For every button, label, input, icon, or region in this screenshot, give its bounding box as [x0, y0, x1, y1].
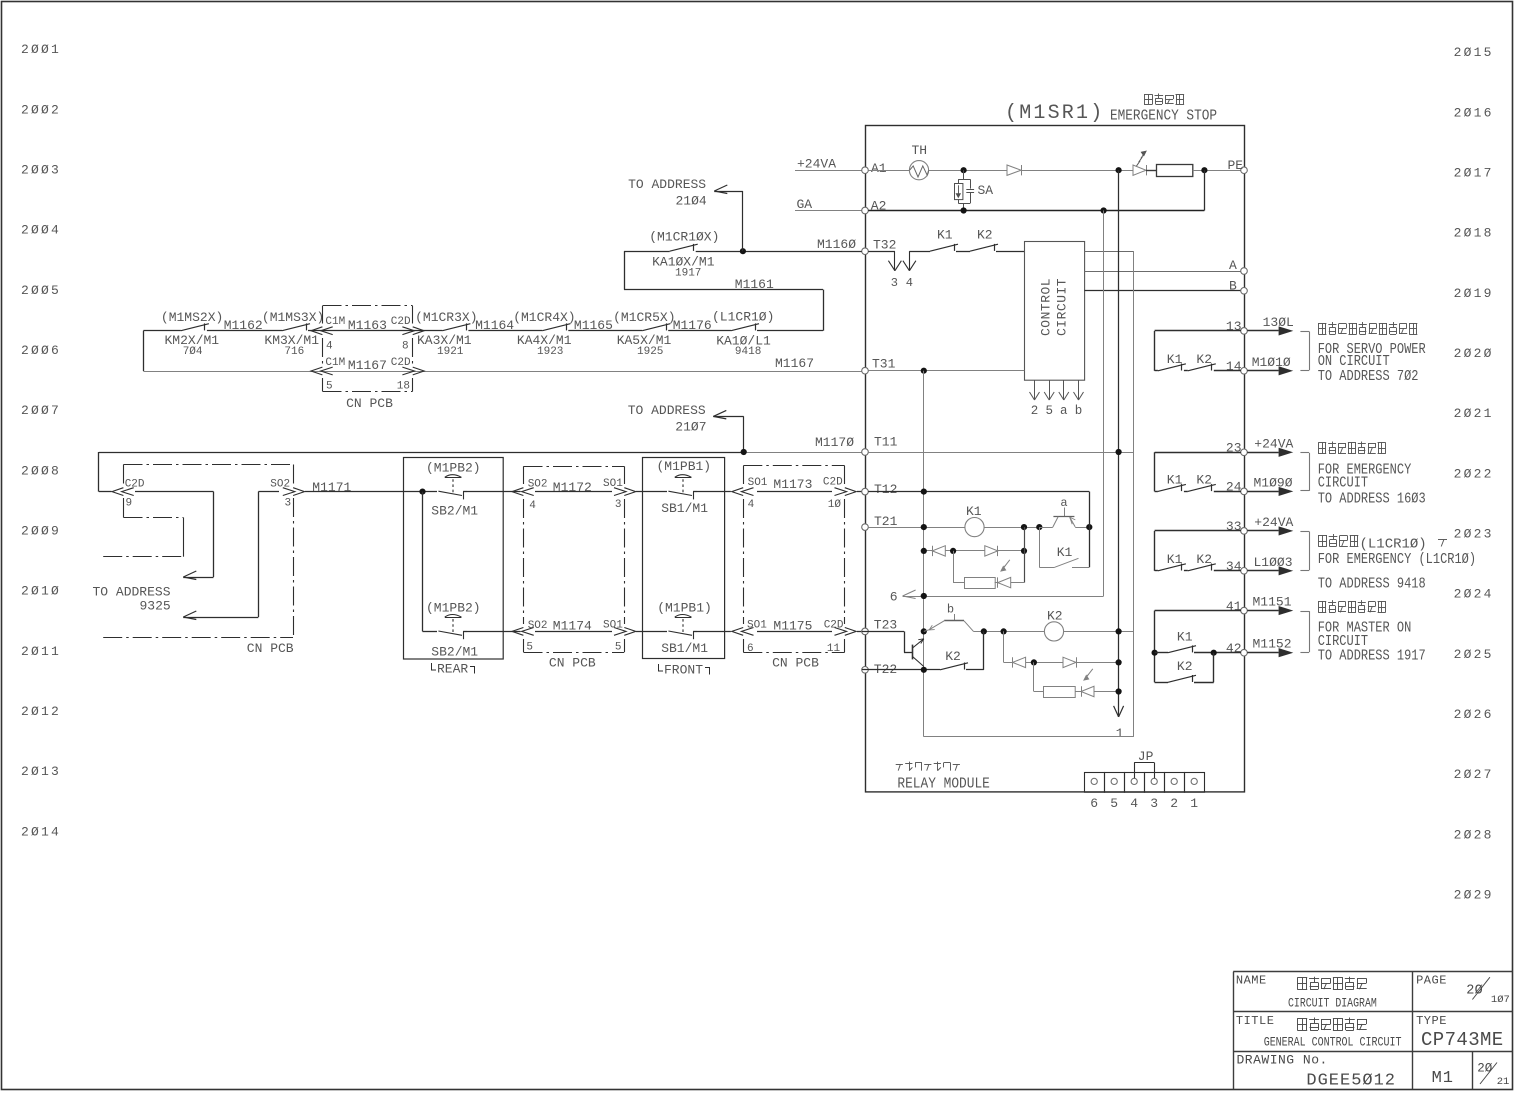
svg-text:SO1: SO1 — [748, 477, 768, 489]
svg-text:FOR EMERGENCY (L1CR1Ø): FOR EMERGENCY (L1CR1Ø) — [1318, 552, 1476, 569]
svg-text:SO2: SO2 — [270, 479, 290, 491]
svg-text:(M1PB1): (M1PB1) — [657, 459, 712, 474]
svg-text:K2: K2 — [1196, 472, 1212, 487]
svg-text:14: 14 — [1226, 359, 1242, 374]
svg-text:T32: T32 — [873, 238, 896, 253]
svg-text:(M1PB2): (M1PB2) — [426, 460, 481, 475]
svg-text:23: 23 — [1226, 441, 1242, 456]
svg-text:7Ø4: 7Ø4 — [183, 346, 203, 358]
svg-text:(M1PB1): (M1PB1) — [657, 601, 712, 616]
svg-text:2ØØ3: 2ØØ3 — [21, 162, 61, 177]
svg-text:5: 5 — [1045, 404, 1053, 418]
svg-text:M1164: M1164 — [475, 318, 514, 333]
svg-text:M1Ø1Ø: M1Ø1Ø — [1252, 355, 1291, 370]
svg-text:CN PCB: CN PCB — [247, 641, 294, 656]
svg-text:M1175: M1175 — [773, 619, 812, 634]
svg-text:M1167: M1167 — [348, 358, 387, 373]
svg-text:2Ø1Ø: 2Ø1Ø — [21, 584, 61, 599]
svg-text:SB1/M1: SB1/M1 — [661, 641, 708, 656]
svg-text:5: 5 — [615, 642, 622, 654]
svg-text:TH: TH — [912, 143, 928, 158]
svg-text:5: 5 — [526, 642, 533, 654]
svg-text:b: b — [1075, 404, 1083, 418]
svg-text:M117Ø: M117Ø — [815, 435, 854, 450]
svg-text:FRONT: FRONT — [664, 663, 703, 678]
svg-text:M1172: M1172 — [553, 480, 592, 495]
svg-text:2ØØ1: 2ØØ1 — [21, 42, 61, 57]
svg-text:K2: K2 — [945, 649, 961, 664]
svg-text:18: 18 — [397, 381, 410, 393]
svg-text:PAGE: PAGE — [1416, 973, 1447, 987]
svg-text:T23: T23 — [874, 618, 897, 633]
svg-text:5: 5 — [1110, 796, 1118, 811]
svg-text:K1: K1 — [1167, 352, 1183, 367]
svg-text:11: 11 — [827, 643, 841, 655]
svg-text:TO ADDRESS: TO ADDRESS — [628, 403, 706, 418]
svg-text:9: 9 — [126, 498, 133, 510]
svg-text:TO ADDRESS 16Ø3: TO ADDRESS 16Ø3 — [1318, 491, 1426, 508]
svg-text:(L1CR1Ø): (L1CR1Ø) — [1360, 537, 1427, 553]
svg-text:K1: K1 — [1167, 552, 1183, 567]
svg-text:1Ø: 1Ø — [828, 499, 842, 511]
svg-text:9418: 9418 — [735, 346, 761, 358]
svg-text:2ØØ8: 2ØØ8 — [21, 463, 61, 478]
svg-text:JP: JP — [1138, 749, 1154, 764]
svg-text:M1: M1 — [1432, 1069, 1454, 1088]
svg-text:TITLE: TITLE — [1236, 1014, 1275, 1028]
svg-text:2Ø2Ø: 2Ø2Ø — [1454, 346, 1494, 361]
svg-text:716: 716 — [284, 346, 304, 358]
svg-text:b: b — [947, 603, 954, 617]
svg-text:a: a — [1060, 404, 1068, 418]
svg-text:T21: T21 — [874, 514, 898, 529]
svg-text:C2D: C2D — [823, 477, 843, 489]
svg-text:SO1: SO1 — [603, 620, 623, 632]
svg-text:1Ø7: 1Ø7 — [1491, 994, 1510, 1006]
svg-text:SA: SA — [978, 183, 994, 198]
svg-text:9325: 9325 — [140, 599, 171, 614]
svg-text:3: 3 — [891, 276, 898, 290]
svg-text:2Ø23: 2Ø23 — [1454, 527, 1494, 542]
svg-text:(M1CR3X): (M1CR3X) — [415, 310, 477, 325]
svg-text:M1171: M1171 — [312, 480, 351, 495]
svg-text:4: 4 — [748, 499, 755, 511]
svg-text:K1: K1 — [1177, 630, 1193, 645]
svg-text:2Ø26: 2Ø26 — [1454, 707, 1494, 722]
svg-text:+24VA: +24VA — [1254, 436, 1293, 451]
svg-text:21Ø4: 21Ø4 — [676, 193, 707, 208]
svg-text:A: A — [1229, 258, 1237, 273]
svg-text:TO ADDRESS 9418: TO ADDRESS 9418 — [1318, 577, 1426, 594]
svg-text:1917: 1917 — [675, 268, 701, 280]
svg-text:M1Ø9Ø: M1Ø9Ø — [1254, 475, 1293, 490]
svg-text:8: 8 — [402, 341, 409, 353]
svg-text:4: 4 — [326, 341, 333, 353]
svg-text:M1151: M1151 — [1253, 595, 1292, 610]
svg-text:13ØL: 13ØL — [1263, 315, 1294, 330]
svg-text:21Ø7: 21Ø7 — [675, 420, 706, 435]
svg-text:34: 34 — [1226, 559, 1242, 574]
svg-text:4: 4 — [906, 276, 913, 290]
svg-text:1921: 1921 — [437, 346, 464, 358]
svg-text:TO ADDRESS 1917: TO ADDRESS 1917 — [1318, 648, 1426, 665]
svg-text:2ØØ6: 2ØØ6 — [21, 343, 61, 358]
svg-text:2Ø28: 2Ø28 — [1454, 827, 1494, 842]
svg-text:C2D: C2D — [391, 316, 411, 328]
svg-text:ON CIRCUIT: ON CIRCUIT — [1318, 354, 1390, 371]
svg-text:M1163: M1163 — [348, 318, 387, 333]
svg-text:M1176: M1176 — [673, 318, 712, 333]
svg-text:3: 3 — [285, 498, 292, 510]
svg-text:GENERAL CONTROL CIRCUIT: GENERAL CONTROL CIRCUIT — [1264, 1037, 1402, 1050]
svg-text:2Ø24: 2Ø24 — [1454, 587, 1494, 602]
svg-text:CIRCUIT DIAGRAM: CIRCUIT DIAGRAM — [1288, 998, 1377, 1011]
svg-text:CN PCB: CN PCB — [346, 396, 393, 411]
svg-text:2ØØ4: 2ØØ4 — [21, 223, 61, 238]
svg-text:1923: 1923 — [537, 346, 563, 358]
svg-text:M1161: M1161 — [735, 277, 774, 292]
svg-text:2: 2 — [1170, 796, 1178, 811]
svg-text:2ØØ5: 2ØØ5 — [21, 283, 61, 298]
svg-text:(M1MS3X): (M1MS3X) — [262, 310, 324, 325]
svg-text:SB2/M1: SB2/M1 — [431, 645, 478, 660]
svg-text:TO ADDRESS: TO ADDRESS — [628, 177, 706, 192]
svg-text:K1: K1 — [1167, 472, 1183, 487]
svg-text:2Ø11: 2Ø11 — [21, 644, 61, 659]
svg-text:2Ø14: 2Ø14 — [21, 824, 61, 839]
svg-text:2Ø16: 2Ø16 — [1454, 105, 1494, 120]
svg-text:(M1PB2): (M1PB2) — [426, 601, 481, 616]
svg-text:SO2: SO2 — [528, 620, 548, 632]
svg-text:SB2/M1: SB2/M1 — [431, 504, 478, 519]
svg-text:RELAY MODULE: RELAY MODULE — [897, 776, 989, 793]
svg-text:+24VA: +24VA — [797, 157, 836, 172]
svg-text:2ØØ2: 2ØØ2 — [21, 102, 61, 117]
svg-text:K1: K1 — [1057, 545, 1073, 560]
svg-text:2Ø21: 2Ø21 — [1454, 406, 1494, 421]
svg-text:K2: K2 — [977, 228, 993, 243]
svg-text:TYPE: TYPE — [1416, 1014, 1447, 1028]
svg-text:K1: K1 — [937, 228, 953, 243]
svg-text:SB1/M1: SB1/M1 — [661, 501, 708, 516]
svg-text:1: 1 — [1116, 726, 1124, 741]
svg-text:M116Ø: M116Ø — [817, 237, 856, 252]
svg-text:DRAWING No.: DRAWING No. — [1237, 1053, 1328, 1068]
svg-text:2: 2 — [1031, 404, 1039, 418]
svg-text:2Ø: 2Ø — [1477, 1061, 1493, 1075]
svg-text:C2D: C2D — [391, 357, 411, 369]
svg-text:13: 13 — [1226, 319, 1242, 334]
svg-text:GA: GA — [797, 197, 813, 212]
svg-text:CIRCUIT: CIRCUIT — [1318, 475, 1368, 492]
svg-text:CIRCUIT: CIRCUIT — [1055, 278, 1070, 336]
svg-text:CN PCB: CN PCB — [549, 656, 596, 671]
svg-text:CN PCB: CN PCB — [772, 656, 819, 671]
svg-text:42: 42 — [1226, 641, 1242, 656]
svg-text:TO ADDRESS 7Ø2: TO ADDRESS 7Ø2 — [1318, 369, 1419, 386]
svg-text:NAME: NAME — [1236, 973, 1267, 987]
svg-text:SO2: SO2 — [528, 479, 548, 491]
svg-text:A1: A1 — [871, 161, 887, 176]
svg-text:6: 6 — [1090, 796, 1098, 811]
svg-text:2Ø27: 2Ø27 — [1454, 767, 1494, 782]
svg-text:C1M: C1M — [325, 316, 345, 328]
svg-text:C2D: C2D — [824, 620, 844, 632]
svg-text:2Ø12: 2Ø12 — [21, 704, 61, 719]
svg-text:CP743ME: CP743ME — [1421, 1029, 1504, 1051]
svg-text:2Ø19: 2Ø19 — [1454, 286, 1494, 301]
svg-text:L1ØØ3: L1ØØ3 — [1254, 555, 1293, 570]
svg-text:1925: 1925 — [637, 346, 663, 358]
svg-text:M1173: M1173 — [773, 477, 812, 492]
svg-text:4: 4 — [1130, 796, 1138, 811]
svg-text:T31: T31 — [872, 357, 896, 372]
svg-text:T12: T12 — [874, 482, 897, 497]
svg-text:+24VA: +24VA — [1254, 515, 1293, 530]
svg-text:41: 41 — [1226, 599, 1242, 614]
svg-text:K2: K2 — [1196, 352, 1212, 367]
svg-text:K1: K1 — [966, 504, 982, 519]
svg-text:3: 3 — [1150, 796, 1158, 811]
svg-text:33: 33 — [1226, 519, 1242, 534]
svg-text:M1165: M1165 — [574, 318, 613, 333]
svg-text:EMERGENCY STOP: EMERGENCY STOP — [1110, 108, 1217, 125]
svg-text:REAR: REAR — [437, 662, 468, 677]
svg-text:(M1CR4X): (M1CR4X) — [513, 310, 575, 325]
svg-text:B: B — [1229, 278, 1237, 293]
svg-text:2ØØ9: 2ØØ9 — [21, 524, 61, 539]
svg-text:PE: PE — [1228, 158, 1244, 173]
svg-text:C2D: C2D — [125, 479, 145, 491]
svg-text:4: 4 — [529, 500, 536, 512]
svg-text:CONTROL: CONTROL — [1039, 278, 1054, 336]
svg-text:C1M: C1M — [325, 357, 345, 369]
svg-text:K2: K2 — [1047, 609, 1063, 624]
svg-text:2Ø15: 2Ø15 — [1454, 45, 1494, 60]
svg-text:T11: T11 — [874, 435, 898, 450]
svg-text:6: 6 — [890, 590, 898, 605]
svg-text:(M1CR1ØX): (M1CR1ØX) — [649, 229, 719, 244]
svg-text:M1174: M1174 — [553, 619, 592, 634]
svg-text:(L1CR1Ø): (L1CR1Ø) — [712, 310, 774, 325]
svg-text:M1167: M1167 — [775, 356, 814, 371]
svg-text:2Ø13: 2Ø13 — [21, 764, 61, 779]
svg-text:2Ø18: 2Ø18 — [1454, 226, 1494, 241]
svg-text:(M1CR5X): (M1CR5X) — [613, 310, 675, 325]
svg-text:M1162: M1162 — [224, 318, 263, 333]
svg-text:M1152: M1152 — [1253, 637, 1292, 652]
svg-text:(M1SR1): (M1SR1) — [1005, 102, 1104, 125]
svg-text:2Ø17: 2Ø17 — [1454, 166, 1494, 181]
svg-text:DGEE5Ø12: DGEE5Ø12 — [1306, 1071, 1396, 1090]
svg-text:3: 3 — [615, 499, 622, 511]
svg-text:21: 21 — [1497, 1076, 1510, 1088]
svg-text:2ØØ7: 2ØØ7 — [21, 403, 61, 418]
svg-text:SO1: SO1 — [603, 478, 623, 490]
svg-text:2Ø22: 2Ø22 — [1454, 466, 1494, 481]
svg-text:K2: K2 — [1177, 659, 1193, 674]
svg-text:5: 5 — [326, 381, 333, 393]
svg-text:2Ø25: 2Ø25 — [1454, 647, 1494, 662]
svg-text:6: 6 — [747, 643, 754, 655]
svg-text:1: 1 — [1190, 796, 1198, 811]
svg-text:TO ADDRESS: TO ADDRESS — [93, 585, 171, 600]
svg-text:24: 24 — [1226, 480, 1242, 495]
svg-text:SO1: SO1 — [747, 620, 767, 632]
svg-text:K2: K2 — [1196, 552, 1212, 567]
svg-text:2Ø29: 2Ø29 — [1454, 888, 1494, 903]
svg-text:(M1MS2X): (M1MS2X) — [161, 310, 223, 325]
